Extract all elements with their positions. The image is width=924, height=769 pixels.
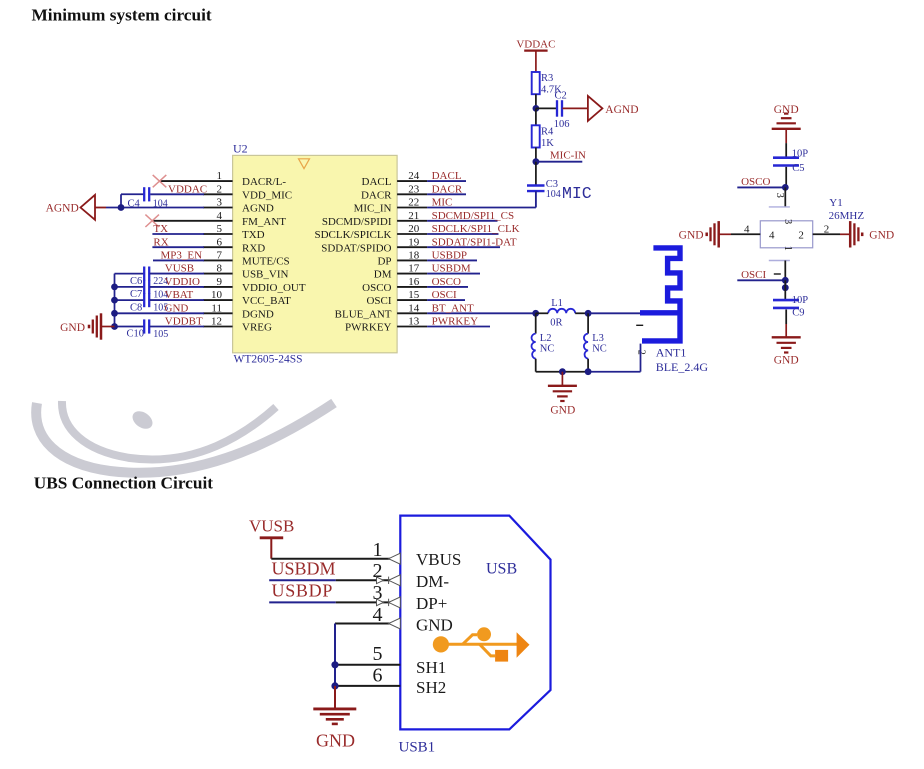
net label VDDBT — [165, 316, 203, 328]
svg-text:SH1: SH1 — [416, 658, 446, 677]
svg-text:USBDP: USBDP — [272, 581, 334, 601]
svg-text:USBDP: USBDP — [432, 250, 467, 262]
svg-text:DACL: DACL — [362, 176, 392, 188]
svg-text:C6: C6 — [130, 276, 142, 287]
pin 4 stub (left) — [203, 220, 233, 222]
net label VBAT — [165, 289, 194, 301]
pin 19 name SDDAT/SPIDO — [321, 242, 391, 254]
pin 19 number — [408, 236, 420, 248]
svg-text:GND: GND — [165, 302, 189, 314]
value 10P (C9) — [792, 295, 809, 306]
label C4 — [128, 199, 141, 210]
value 105 (C10) — [153, 329, 168, 340]
svg-text:C4: C4 — [128, 199, 141, 210]
svg-text:DACL: DACL — [432, 170, 462, 182]
crystal pin 4 number — [744, 223, 750, 235]
svg-text:4: 4 — [217, 210, 223, 222]
svg-text:ANT1: ANT1 — [656, 346, 687, 360]
pin 3 stub (left) — [203, 207, 233, 209]
svg-text:3: 3 — [774, 193, 785, 198]
pin 6 number — [217, 236, 223, 248]
pin 1 stub (left) — [203, 180, 233, 182]
svg-text:2: 2 — [217, 183, 223, 195]
inductor L1 — [536, 309, 588, 314]
pin 2 number — [217, 183, 223, 195]
svg-text:C9: C9 — [792, 308, 804, 319]
svg-text:GND: GND — [550, 404, 575, 416]
pin 24 number — [408, 170, 420, 182]
svg-text:TX: TX — [153, 223, 168, 235]
capacitor C4 — [144, 187, 149, 201]
net label BT_ANT — [432, 302, 474, 314]
svg-text:BLE_2.4G: BLE_2.4G — [656, 360, 709, 374]
svg-text:FM_ANT: FM_ANT — [242, 216, 286, 228]
wire: L3 bottom — [587, 359, 589, 372]
net label SDDAT/SPI1-DAT — [432, 236, 517, 248]
svg-text:USB: USB — [486, 560, 517, 577]
value 104 (C7) — [153, 289, 168, 300]
wire: crystal pin 4 to GND — [719, 233, 761, 235]
svg-text:10P: 10P — [792, 148, 809, 159]
label USB (inside connector) — [486, 560, 517, 577]
junction bus row11 — [111, 310, 118, 317]
pin 10 name VCC_BAT — [242, 295, 291, 307]
usb pin 5 number — [373, 643, 383, 665]
wire: bus to C8 (row10) — [115, 299, 144, 301]
net label OSCO — [432, 276, 461, 288]
capacitor C6 — [144, 267, 149, 281]
pin 4 name FM_ANT — [242, 216, 286, 228]
capacitor C9 — [773, 300, 799, 308]
pin 5 number — [217, 223, 223, 235]
svg-text:USB_VIN: USB_VIN — [242, 269, 289, 281]
wire: C10 to pin 12 — [150, 326, 204, 328]
junction on pin 3 wire — [118, 204, 125, 211]
usb pin 3 number — [373, 582, 383, 604]
label C2 — [555, 91, 567, 102]
usb pin 2 arrow — [377, 575, 401, 586]
net label OSCI — [432, 289, 457, 301]
pin 18 number — [408, 250, 420, 262]
svg-text:4: 4 — [769, 230, 775, 242]
svg-text:SDDAT/SPIDO: SDDAT/SPIDO — [321, 242, 391, 254]
svg-text:Y1: Y1 — [829, 197, 842, 209]
wire: net OSCI (pin 15) — [427, 299, 465, 301]
wire: net OSCI — [737, 279, 785, 281]
usb pin name SH2 — [416, 678, 446, 697]
pin 22 name MIC_IN — [354, 203, 392, 215]
wire: pin 6 — [335, 685, 400, 687]
pin 10 stub (left) — [203, 299, 233, 301]
svg-text:6: 6 — [373, 664, 383, 686]
value 104 (C3) — [546, 189, 561, 200]
svg-text:MIC-IN: MIC-IN — [550, 150, 586, 162]
title: Minimum system circuit — [32, 6, 212, 25]
value NC (L3) — [592, 343, 607, 354]
svg-text:13: 13 — [408, 316, 420, 328]
inductor L3 (NC) — [584, 334, 588, 359]
svg-text:OSCI: OSCI — [432, 289, 457, 301]
value 0R (L1) — [550, 317, 562, 328]
pin 2 stub (left) — [203, 193, 233, 195]
pin 16 stub (right) — [397, 286, 427, 288]
svg-text:9: 9 — [217, 276, 223, 288]
wire: net USBDP to pin 3 — [269, 601, 400, 603]
svg-text:VDDBT: VDDBT — [165, 316, 203, 328]
wire: net USBDM to pin 2 — [269, 579, 400, 581]
svg-text:GND: GND — [869, 229, 894, 241]
wire: junction to R4 — [535, 108, 537, 125]
IC U2 body (WT2605-24SS) — [233, 155, 398, 352]
label C6 — [130, 276, 142, 287]
svg-text:GND: GND — [774, 355, 799, 367]
value 106 (C2) — [554, 119, 570, 130]
value 1K (R4) — [541, 138, 554, 149]
svg-text:OSCO: OSCO — [741, 176, 770, 188]
pin 13 number — [408, 316, 420, 328]
svg-text:106: 106 — [554, 119, 570, 130]
capacitor C7 — [144, 280, 149, 294]
label L2 — [540, 333, 552, 344]
svg-text:SDCLK/SPI1_CLK: SDCLK/SPI1_CLK — [432, 223, 520, 235]
svg-text:10: 10 — [211, 289, 223, 301]
pin 16 name OSCO — [362, 282, 391, 294]
capacitor C3 — [527, 186, 545, 192]
svg-text:21: 21 — [408, 210, 419, 222]
label L3 — [592, 333, 604, 344]
wire: net BT_ANT (pin 14) — [427, 312, 536, 314]
svg-text:USB1: USB1 — [399, 740, 436, 756]
svg-text:8: 8 — [217, 263, 223, 275]
pin 23 stub (right) — [397, 193, 427, 195]
usb pin 4 number — [373, 604, 383, 626]
svg-text:2: 2 — [798, 230, 804, 242]
net label OSCO — [741, 176, 770, 188]
label Y1 — [829, 197, 842, 209]
power port VUSB — [249, 517, 294, 559]
svg-text:OSCO: OSCO — [362, 282, 391, 294]
svg-text:NC: NC — [540, 343, 555, 354]
wire: rail to antenna return — [588, 371, 640, 373]
net label SDCMD/SPI1_CS — [432, 210, 515, 222]
net label SDCLK/SPI1_CLK — [432, 223, 520, 235]
svg-text:VUSB: VUSB — [249, 517, 294, 536]
pin 21 stub (right) — [397, 220, 427, 222]
net label USBDP — [272, 581, 334, 601]
wire: bus to GND symbol — [334, 686, 336, 708]
pin 9 name VDDIO_OUT — [242, 282, 306, 294]
wire: net SDCMD/SPI1_CS (pin 21) — [427, 220, 497, 222]
junction bus row10 — [111, 297, 118, 304]
svg-text:3: 3 — [782, 219, 793, 224]
svg-text:BLUE_ANT: BLUE_ANT — [335, 308, 392, 320]
svg-text:C2: C2 — [555, 91, 567, 102]
crystal pin 4 inside — [769, 230, 775, 242]
pin 18 stub (right) — [397, 259, 427, 261]
svg-text:L1: L1 — [551, 298, 563, 309]
pin 15 number — [408, 289, 420, 301]
pin 16 number — [408, 276, 420, 288]
wire: pin 3 AGND net — [106, 207, 204, 209]
usb pin name GND — [416, 615, 453, 634]
IC part number WT2605-24SS — [234, 353, 303, 365]
ground GND (USB) — [313, 709, 356, 751]
svg-text:DM: DM — [374, 269, 392, 281]
svg-text:GND: GND — [316, 731, 355, 751]
pin 12 name VREG — [242, 322, 272, 334]
svg-text:OSCI: OSCI — [366, 295, 391, 307]
pin 24 stub (right) — [397, 180, 427, 182]
capacitor C8 — [144, 293, 149, 307]
svg-text:DACR/L-: DACR/L- — [242, 176, 286, 188]
pin 10 number — [211, 289, 223, 301]
svg-text:5: 5 — [373, 643, 383, 665]
svg-text:DACR: DACR — [361, 189, 392, 201]
wire: R3 to junction — [535, 94, 537, 108]
svg-text:VUSB: VUSB — [165, 263, 194, 275]
pin 15 name OSCI — [366, 295, 391, 307]
svg-text:24: 24 — [408, 170, 420, 182]
junction rail GND tap — [559, 368, 566, 375]
net label OSCI — [741, 269, 766, 281]
wire: C2 to AGND — [562, 107, 588, 109]
capacitor C2 — [557, 100, 562, 117]
net label RX — [153, 236, 168, 248]
junction BT_ANT / L1 left — [532, 310, 539, 317]
capacitor C10 — [144, 319, 149, 333]
svg-text:AGND: AGND — [242, 203, 274, 215]
svg-text:MIC: MIC — [562, 184, 592, 203]
pin 21 name SDCMD/SPIDI — [322, 216, 392, 228]
wire: net TX (pin 5) — [152, 233, 204, 235]
no-connect X on pin 4 — [145, 215, 203, 227]
svg-text:VDDAC: VDDAC — [168, 183, 207, 195]
wire: C3 down to pin 22 net — [427, 191, 536, 207]
wire: OSCO to crystal pin 3 — [784, 187, 786, 207]
usb pin 4 arrow — [389, 618, 401, 629]
wire: left cap bus — [114, 274, 116, 327]
svg-text:USBDM: USBDM — [432, 263, 471, 275]
pin 17 number — [408, 263, 420, 275]
pin 13 name PWRKEY — [345, 322, 392, 334]
pin 22 stub (right) — [397, 207, 427, 209]
usb pin 3 arrow — [377, 597, 401, 608]
pin 7 number — [217, 250, 223, 262]
label BLE_2.4G — [656, 360, 709, 374]
svg-text:VCC_BAT: VCC_BAT — [242, 295, 291, 307]
pin 17 name DM — [374, 269, 392, 281]
svg-text:NC: NC — [592, 343, 607, 354]
wire: bottom rail L2-L3 — [536, 371, 588, 373]
pin 17 stub (right) — [397, 273, 427, 275]
svg-text:AGND: AGND — [46, 203, 79, 215]
wire: GND stub (antenna) — [561, 372, 563, 386]
power port VDDAC — [516, 39, 555, 72]
svg-text:SDCMD/SPI1_CS: SDCMD/SPI1_CS — [432, 210, 515, 222]
no-connect X on pin 1 — [153, 175, 203, 187]
label C8 — [130, 302, 142, 313]
ground GND (crystal left) — [679, 221, 719, 247]
svg-text:23: 23 — [408, 183, 420, 195]
svg-text:18: 18 — [408, 250, 420, 262]
pin 5 stub (left) — [203, 233, 233, 235]
crystal pin 3 inside (rotated) — [782, 219, 793, 224]
net label USBDP — [432, 250, 467, 262]
wire: C5 to OSCO junction — [785, 167, 787, 188]
pin 23 name DACR — [361, 189, 392, 201]
wire: pin 5 — [335, 664, 400, 666]
wire: net MP3_EN (pin 7) — [153, 259, 204, 261]
wire: C6 to pin 8 — [150, 273, 204, 275]
ground GND (bottom of C9) — [772, 337, 801, 366]
svg-text:VBUS: VBUS — [416, 550, 461, 569]
crystal Y1 body — [760, 221, 812, 248]
svg-text:WT2605-24SS: WT2605-24SS — [234, 353, 303, 365]
wire: crystal pin 2 to GND — [813, 233, 851, 235]
svg-text:VDDIO_OUT: VDDIO_OUT — [242, 282, 306, 294]
pin 13 stub (right) — [397, 326, 427, 328]
svg-text:1: 1 — [782, 246, 793, 251]
wire: VUSB to pin 1 — [271, 558, 400, 560]
wire: net USBDP (pin 18) — [427, 259, 477, 261]
antenna pin 1 number (rotated) — [636, 324, 643, 326]
svg-text:19: 19 — [408, 236, 420, 248]
wire: L2 bottom — [535, 359, 537, 372]
label ANT1 — [656, 346, 687, 360]
net label PWRKEY — [432, 316, 479, 328]
pin 8 stub (left) — [203, 273, 233, 275]
wire: OSCI junction to C9 — [784, 280, 786, 299]
label C10 — [127, 329, 145, 340]
wire: L3 top — [587, 313, 589, 333]
svg-text:Minimum system circuit: Minimum system circuit — [32, 6, 212, 25]
wire: C9 to GND — [785, 310, 787, 338]
svg-text:14: 14 — [408, 302, 420, 314]
net label MIC — [432, 197, 453, 209]
svg-text:MUTE/CS: MUTE/CS — [242, 256, 290, 268]
svg-text:PWRKEY: PWRKEY — [345, 322, 392, 334]
pin 2 name VDD_MIC — [242, 189, 292, 201]
usb pin 1 arrow — [389, 553, 401, 564]
wire: junction to C2 — [536, 107, 557, 109]
label R4 — [541, 126, 554, 137]
crystal pin 2 number — [824, 223, 830, 235]
pin 12 stub (left) — [203, 326, 233, 328]
svg-text:DM-: DM- — [416, 572, 449, 591]
usb pin name SH1 — [416, 658, 446, 677]
wire: GND to C5 — [785, 129, 787, 157]
svg-text:1K: 1K — [541, 138, 554, 149]
svg-text:RXD: RXD — [242, 242, 265, 254]
junction L1 right — [585, 310, 592, 317]
wire: bus to pin 11 (GND net) — [115, 312, 205, 314]
pin 5 name TXD — [242, 229, 265, 241]
svg-text:GND: GND — [679, 229, 704, 241]
pin 20 number — [408, 223, 420, 235]
pin 11 number — [211, 302, 222, 314]
pin 11 stub (left) — [203, 312, 233, 314]
pin 24 name DACL — [362, 176, 392, 188]
pin 7 name MUTE/CS — [242, 256, 290, 268]
usb pin 2 number — [373, 560, 383, 582]
label C9 — [792, 308, 804, 319]
junction MIC-IN — [533, 158, 540, 165]
svg-text:DP: DP — [377, 256, 391, 268]
pin 3 number — [217, 197, 223, 209]
wire: AGND to junction (pin 3) — [95, 207, 106, 209]
net label VDDIO — [165, 276, 200, 288]
svg-text:VDDAC: VDDAC — [516, 39, 555, 51]
junction ground bus pin 6 — [331, 682, 338, 689]
net label DACL — [432, 170, 462, 182]
svg-text:3: 3 — [217, 197, 223, 209]
pin 15 stub (right) — [397, 299, 427, 301]
pin 14 name BLUE_ANT — [335, 308, 392, 320]
net label USBDM — [432, 263, 471, 275]
pin 1 name DACR/L- — [242, 176, 286, 188]
wire: pin 4 to ground bus — [335, 623, 400, 625]
svg-text:20: 20 — [408, 223, 420, 235]
wire: net VDDAC (pin 2) — [150, 193, 204, 195]
wire: antenna pin2 down — [640, 344, 642, 372]
pin 21 number — [408, 210, 419, 222]
watermark logo swoosh (light gray) — [36, 401, 334, 473]
svg-text:104: 104 — [546, 189, 561, 200]
svg-text:SDDAT/SPI1-DAT: SDDAT/SPI1-DAT — [432, 236, 517, 248]
net label MP3_EN — [161, 250, 203, 262]
svg-text:26MHZ: 26MHZ — [829, 210, 865, 222]
svg-text:22: 22 — [408, 197, 419, 209]
svg-text:VDDIO: VDDIO — [165, 276, 200, 288]
net label VDDAC — [168, 183, 207, 195]
resistor R4 — [532, 125, 540, 147]
svg-text:17: 17 — [408, 263, 420, 275]
ground GND (top of C5) — [772, 104, 801, 129]
wire: crystal pin 1 to OSCI junction — [784, 261, 786, 281]
wire: ground bus vertical — [334, 624, 336, 686]
ground GND (antenna network) — [548, 386, 577, 417]
net label VUSB — [165, 263, 194, 275]
label C3 — [546, 179, 558, 190]
usb trident icon — [433, 627, 530, 661]
svg-text:SDCMD/SPIDI: SDCMD/SPIDI — [322, 216, 392, 228]
pin 20 stub (right) — [397, 233, 427, 235]
label C7 — [130, 289, 142, 300]
svg-text:104: 104 — [153, 199, 168, 210]
wire: net OSCO (pin 16) — [427, 286, 468, 288]
wire: GND symbol to bus — [101, 326, 115, 328]
wire: net OSCO — [737, 186, 785, 188]
power port AGND (right) — [588, 96, 639, 121]
usb pin name VBUS — [416, 550, 461, 569]
pin 14 stub (right) — [397, 312, 427, 314]
wire: C4 left elbow — [121, 194, 144, 207]
svg-text:RX: RX — [153, 236, 168, 248]
pin 1 number — [217, 170, 223, 182]
svg-text:C5: C5 — [792, 163, 804, 174]
svg-text:15: 15 — [408, 289, 420, 301]
svg-text:DGND: DGND — [242, 308, 274, 320]
svg-text:0R: 0R — [550, 317, 562, 328]
pin 3 name AGND — [242, 203, 274, 215]
crystal pin 1 inside (rotated) — [782, 246, 793, 251]
junction OSCI — [782, 277, 789, 284]
pin 7 stub (left) — [203, 259, 233, 261]
pin 14 number — [408, 302, 420, 314]
wire: net USBDM (pin 17) — [427, 273, 480, 275]
pin 22 number — [408, 197, 419, 209]
svg-text:OSCI: OSCI — [741, 269, 766, 281]
